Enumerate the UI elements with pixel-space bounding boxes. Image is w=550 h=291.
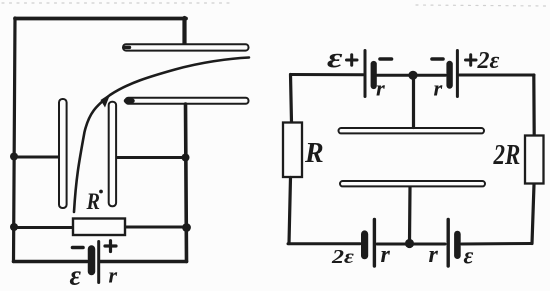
svg-text:ε: ε: [464, 244, 474, 270]
capacitor vertical left plate: [59, 99, 67, 208]
battery bottom-right thick bar: [454, 234, 461, 256]
capacitor vertical right plate: [109, 102, 116, 207]
wire top: [15, 17, 186, 21]
capacitor upper horizontal plate: [123, 44, 249, 50]
svg-text:2ε: 2ε: [477, 48, 500, 74]
battery bottom-left thick bar: [361, 234, 368, 256]
svg-text:r: r: [429, 242, 439, 268]
node junction dot top: [408, 71, 417, 80]
plus sign top-right: [466, 55, 477, 65]
battery bottom-left long line: [373, 220, 376, 267]
resistor R body: [73, 219, 125, 236]
node junction dot bottom: [405, 239, 414, 248]
node junction dot left lower: [10, 223, 18, 231]
battery top-right negative thick bar: [446, 64, 452, 86]
wire from top down to upper plate: [182, 18, 186, 45]
capacitor bottom plate: [340, 181, 485, 186]
resistor 2R body: [525, 136, 544, 184]
svg-text:ε: ε: [70, 261, 82, 291]
battery positive long line: [97, 242, 100, 283]
wire capacitor bottom tap: [408, 188, 412, 243]
minus sign: [73, 246, 84, 250]
plus sign top-left: [347, 55, 358, 65]
wire bottom middle segment: [377, 243, 445, 246]
svg-text:R: R: [86, 189, 100, 214]
battery top-left negative thick bar: [371, 64, 377, 86]
label R dot: [99, 190, 103, 194]
capacitor top plate: [339, 128, 485, 133]
minus sign top-left battery: [380, 57, 392, 61]
svg-text:r: r: [376, 76, 385, 101]
battery negative thick bar: [88, 249, 96, 272]
battery top-right positive long line: [456, 51, 459, 97]
node junction dot right lower: [182, 223, 191, 232]
node junction dot left mid: [10, 153, 18, 161]
wire resistor left: [14, 226, 73, 229]
upper plate left end mark: [125, 46, 130, 49]
svg-text:r: r: [109, 263, 118, 288]
wire bottom right segment: [100, 260, 187, 264]
wire left vertical: [14, 18, 16, 262]
scan artifact dotted line top: [2, 3, 548, 6]
wire right lower: [532, 185, 534, 244]
wire top middle segment: [377, 74, 446, 77]
svg-text:r: r: [381, 242, 391, 268]
wire bottom left segment: [14, 260, 88, 264]
trajectory arrowhead: [101, 94, 111, 108]
wire lower plate down to bottom: [186, 104, 187, 262]
wire right upper: [532, 75, 536, 136]
wire left upper: [291, 75, 292, 123]
svg-text:R: R: [304, 138, 324, 169]
svg-text:2R: 2R: [493, 139, 521, 171]
trajectory curve: [74, 58, 249, 213]
wire capacitor top tap: [412, 77, 415, 128]
wire bottom right segment: [462, 242, 533, 246]
node junction dot right mid: [182, 154, 190, 162]
capacitor lower horizontal plate: [126, 98, 249, 104]
minus sign top-right battery: [432, 57, 443, 61]
svg-text:2ε: 2ε: [331, 245, 354, 268]
battery bottom-right long line: [447, 220, 450, 267]
wire left lower: [289, 178, 291, 244]
plus sign: [105, 241, 116, 252]
wire top right segment: [460, 74, 535, 77]
wire resistor right: [126, 226, 187, 229]
wire to left vertical plate: [14, 156, 58, 159]
wire top left segment: [291, 73, 364, 76]
resistor R body: [283, 123, 302, 178]
lower plate left end thick mark: [126, 99, 133, 104]
wire bottom left segment: [288, 242, 360, 245]
battery top-left positive long line: [364, 51, 367, 97]
svg-text:r: r: [434, 76, 443, 101]
wire from right vertical plate: [118, 156, 186, 159]
svg-text:ε: ε: [327, 42, 343, 74]
